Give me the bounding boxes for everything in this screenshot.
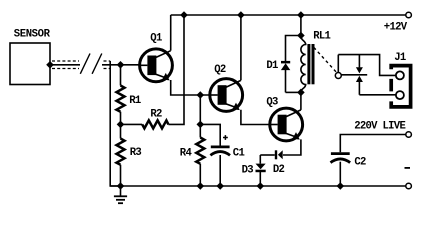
svg-text:SENSOR: SENSOR (14, 29, 51, 41)
svg-text:R3: R3 (130, 147, 142, 159)
resistor R2 (142, 120, 168, 128)
wire R2 to +12V column (168, 15, 184, 124)
svg-text:J1: J1 (394, 52, 406, 64)
svg-text:+12V: +12V (384, 22, 408, 34)
wire Q1 collector to rail (170, 15, 172, 51)
wire rail to relay top node (300, 15, 302, 36)
wire node to R3 (120, 124, 122, 138)
wire Q3 emitter down (283, 139, 301, 155)
wire node to R4 (199, 124, 201, 137)
node C1 on rail (216, 182, 224, 190)
wire shield drain to ground rail (110, 61, 120, 186)
diode D1 (281, 61, 290, 93)
capacitor C1 bottom plate (curved) (210, 152, 230, 156)
wire contact bottom to J1 pin 2 (359, 94, 395, 96)
node Q2 base / R4 (197, 91, 205, 99)
wire R1 to node (120, 112, 122, 125)
capacitor C1 plus sign (223, 135, 228, 140)
wire D1 bottom to relay bottom node (286, 91, 301, 93)
wire to D1 top (286, 36, 301, 62)
connector J1 pin 1 (396, 71, 404, 79)
top rail +12V (171, 14, 406, 16)
svg-text:Q2: Q2 (214, 64, 226, 76)
wire R3 to rail (120, 165, 122, 186)
wire R4 to rail (199, 164, 201, 186)
relay contact pivot (335, 73, 341, 79)
ground symbol (114, 186, 127, 203)
resistor R4 (196, 138, 204, 164)
node R4/C1 (197, 121, 205, 129)
wire node to R2 (121, 123, 143, 125)
wire center conductor, right part (102, 64, 139, 66)
capacitor C2 top plate (331, 152, 350, 155)
node D3 on rail (257, 182, 265, 190)
wire contact top to J1 pin 1 (338, 55, 395, 76)
node Q1 base / R1 top (117, 61, 125, 69)
wire Q3 collector up to relay node (300, 92, 302, 110)
diode D2 (260, 150, 282, 159)
wire C2 to rail (339, 162, 341, 186)
node R4 on rail (197, 182, 205, 190)
wire Q1 emitter down and to Q2 base (171, 80, 209, 95)
wire node to C1 (200, 124, 220, 146)
relay RL1 coil (301, 36, 306, 92)
svg-text:Q1: Q1 (150, 33, 162, 45)
capacitor C2 bottom plate (curved) (331, 159, 351, 163)
svg-text:C2: C2 (354, 157, 366, 169)
node relay bottom (297, 89, 305, 97)
cable break slash 1 (80, 54, 90, 74)
node R2 feed on rail (180, 11, 188, 19)
connector J1 pin 2 (396, 91, 404, 99)
node ground on rail (117, 182, 125, 190)
svg-text:R1: R1 (129, 95, 141, 107)
relay actuator dashed link (314, 47, 337, 72)
svg-text:D2: D2 (273, 164, 285, 176)
wire Q2 collector to rail (240, 15, 242, 80)
resistor R1 (117, 86, 125, 112)
contact upper arrow (356, 55, 363, 74)
wire Q2 emitter to Q3 base (241, 110, 269, 125)
cable break slash 2 (92, 54, 102, 74)
transistor Q3 (270, 108, 303, 141)
svg-text:D3: D3 (242, 164, 254, 176)
wire sensor output (center conductor, left part) (50, 64, 80, 66)
wire node down to R4/C1 node (199, 95, 201, 124)
relay RL1 core bar 2 (312, 44, 315, 84)
connector J1 outline (391, 66, 410, 107)
diode D3 (256, 164, 266, 186)
node Q2 collector on rail (237, 11, 245, 19)
relay RL1 core bar 1 (307, 44, 310, 84)
shield dashed line upper right (104, 60, 111, 62)
terminal minus (406, 183, 412, 189)
wire C1 to rail (219, 155, 221, 186)
svg-text:D1: D1 (266, 60, 278, 72)
node C2 on rail (337, 182, 345, 190)
svg-text:220V LIVE: 220V LIVE (354, 121, 405, 133)
shield dashed line upper left (52, 60, 79, 62)
terminal +12V (406, 12, 412, 18)
sensor box (10, 43, 50, 85)
node relay on rail (297, 11, 305, 19)
svg-text:C1: C1 (233, 148, 245, 160)
wire pivot up to top (337, 55, 339, 73)
svg-text:RL1: RL1 (313, 30, 330, 42)
capacitor C1 top plate (211, 145, 230, 148)
svg-text:R4: R4 (180, 147, 193, 159)
node R1/R2/R3 (117, 121, 125, 129)
contact lower arrow (356, 76, 363, 95)
node relay top (297, 32, 305, 40)
svg-text:R2: R2 (150, 108, 162, 120)
transistor Q2 (210, 79, 243, 112)
shield dashed line lower left (52, 68, 79, 70)
shield dashed line lower right (104, 68, 111, 70)
resistor R3 (117, 139, 125, 165)
node sensor output (46, 61, 54, 69)
transistor Q1 (140, 49, 173, 82)
wire node to R1 (120, 65, 122, 86)
wire D2 to D3 (259, 155, 261, 164)
bottom rail (110, 185, 406, 187)
contact arm (341, 74, 367, 76)
label minus (405, 167, 411, 169)
wire 220V to C2 (340, 135, 406, 153)
terminal 220V live (406, 132, 412, 138)
svg-text:Q3: Q3 (266, 96, 278, 108)
